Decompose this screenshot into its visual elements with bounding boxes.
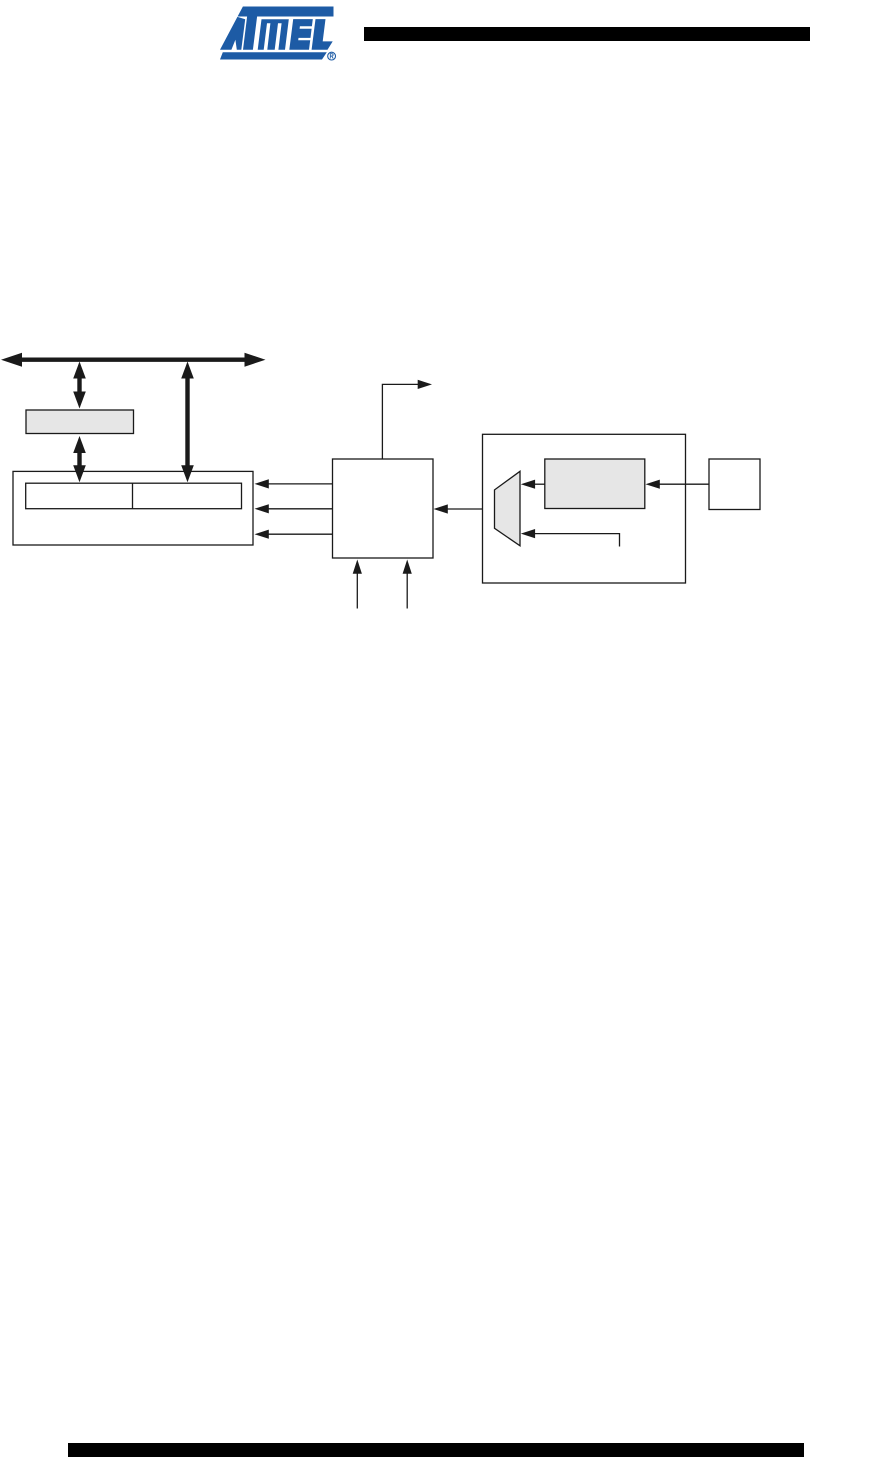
prescaler container box bbox=[483, 434, 686, 583]
wire: oscillator to prescaler bbox=[659, 483, 709, 485]
header black bar bbox=[364, 27, 810, 41]
block diagram bbox=[0, 350, 875, 620]
top slab + T stem bbox=[238, 7, 334, 50]
bypass wire into mux (with stub) bbox=[535, 534, 620, 547]
footer black bar bbox=[68, 1443, 804, 1457]
interrupt request wire (up and right) bbox=[382, 384, 418, 459]
bottom input wire 2 bbox=[406, 572, 408, 609]
inner box divider bbox=[132, 483, 134, 509]
wire: control to counter (top) bbox=[268, 483, 333, 485]
counter outer box bbox=[13, 471, 253, 545]
clock select wire (mux to control) bbox=[447, 508, 495, 510]
Atmel logo bbox=[219, 5, 338, 63]
arrowhead bbox=[255, 479, 269, 488]
arrowhead bbox=[255, 504, 269, 513]
clock mux bbox=[495, 471, 521, 546]
wire: prescaler to mux bbox=[534, 483, 545, 485]
letter L bbox=[312, 19, 333, 50]
vertical bus arrow B (register to counter) bbox=[73, 436, 86, 482]
wire: control to counter (bottom) bbox=[268, 533, 333, 535]
wire: control to counter (middle) bbox=[268, 508, 333, 510]
oscillator box (right) bbox=[709, 459, 760, 510]
bottom input wire 1 bbox=[356, 572, 358, 609]
arrowhead bbox=[255, 530, 269, 539]
registered trademark bbox=[328, 52, 336, 60]
interrupt arrowhead bbox=[418, 380, 432, 389]
vertical bus arrow C (bus to counter, long) bbox=[181, 362, 194, 483]
data bus (thick double arrow) bbox=[1, 353, 266, 367]
gray register box (left) bbox=[26, 410, 134, 434]
vertical bus arrow A (bus to register) bbox=[73, 362, 86, 409]
letter M bbox=[258, 19, 289, 50]
bottom slab bbox=[220, 52, 327, 59]
prescaler gray box bbox=[545, 459, 645, 509]
control logic box (center) bbox=[333, 459, 434, 558]
arrowhead into control box bbox=[434, 504, 448, 513]
letter A bbox=[220, 17, 245, 50]
counter value register (inner box) bbox=[26, 483, 242, 509]
letter E bbox=[289, 19, 313, 50]
